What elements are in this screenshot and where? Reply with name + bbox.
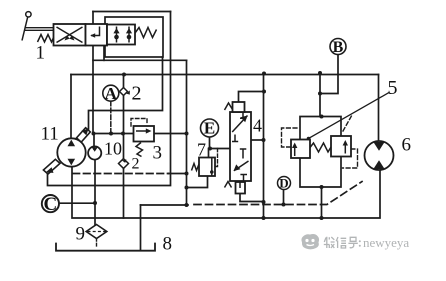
svg-text:newyeya: newyeya <box>363 235 409 250</box>
svg-text:4: 4 <box>253 116 262 136</box>
svg-text:7: 7 <box>197 140 206 160</box>
svg-text:5: 5 <box>388 77 398 99</box>
svg-text:8: 8 <box>163 234 173 255</box>
svg-text:11: 11 <box>41 124 59 145</box>
svg-text:9: 9 <box>76 224 86 245</box>
svg-text:2: 2 <box>132 83 142 105</box>
svg-text:D: D <box>279 175 288 190</box>
svg-text:3: 3 <box>153 143 163 164</box>
svg-text:E: E <box>204 119 215 138</box>
svg-text:2: 2 <box>132 156 140 173</box>
svg-text:10: 10 <box>104 139 122 159</box>
svg-text:C: C <box>44 194 58 215</box>
svg-text:B: B <box>333 39 344 56</box>
svg-text:A: A <box>105 84 118 103</box>
svg-text:6: 6 <box>402 135 412 156</box>
svg-text:1: 1 <box>36 43 46 64</box>
